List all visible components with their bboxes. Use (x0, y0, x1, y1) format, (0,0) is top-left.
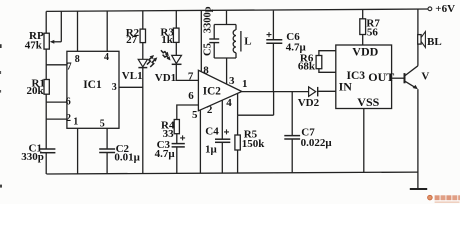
svg-text:7: 7 (188, 70, 194, 82)
inductor L (233, 25, 251, 59)
svg-text:27: 27 (126, 34, 138, 46)
pin 5 label IC1 (100, 119, 105, 130)
svg-text:5: 5 (100, 119, 105, 130)
svg-text:IN: IN (339, 80, 353, 94)
wire RP to R1 (45, 49, 47, 79)
svg-text:8: 8 (75, 54, 80, 65)
svg-text:C4: C4 (205, 125, 219, 137)
pin 3 label IC1 (112, 82, 117, 93)
wire IC3 VSS to ground (363, 109, 365, 173)
svg-text:BL: BL (427, 36, 442, 48)
wire C3 to ground (176, 147, 178, 174)
svg-text:IC1: IC1 (83, 79, 102, 91)
pin 8 label IC1 (75, 54, 80, 65)
resistor R1 (27, 78, 50, 97)
transistor V (405, 66, 430, 89)
wire IC2 pin 2 to C4 (221, 100, 223, 139)
wire IC1 pin 4 to rail (106, 11, 108, 51)
pin 3 label IC2 (229, 75, 235, 87)
+6V terminal (428, 3, 455, 15)
potentiometer RP (25, 11, 62, 51)
wire C4 to ground (221, 142, 223, 173)
svg-text:47k: 47k (25, 39, 43, 51)
svg-text:330p: 330p (21, 151, 44, 163)
svg-text:6: 6 (66, 96, 71, 107)
pin 2 label IC1 (66, 113, 71, 124)
svg-text:2: 2 (207, 104, 213, 116)
wire feedback vertical to output (273, 92, 275, 116)
svg-text:VDD: VDD (352, 44, 378, 58)
wire top supply rail (46, 9, 428, 11)
svg-text:OUT: OUT (368, 70, 394, 84)
wire IC2 pin 6 (177, 105, 199, 120)
svg-text:L: L (244, 35, 251, 47)
svg-text:VL1: VL1 (122, 70, 143, 82)
svg-text:5: 5 (192, 109, 198, 121)
pin 6 label IC2 (188, 90, 194, 102)
wire emitter to ground (417, 89, 419, 189)
capacitor C6 (266, 11, 306, 54)
wire collector to speaker (417, 44, 419, 66)
wire IC1 pin 5 to C2 (106, 128, 108, 149)
svg-text:0.022μ: 0.022μ (301, 137, 333, 149)
svg-text:68k: 68k (298, 60, 316, 72)
svg-text:4: 4 (104, 52, 109, 63)
resistor R4 (161, 120, 179, 141)
wire rail to LC tank (226, 11, 228, 25)
pin 4 label IC1 (104, 52, 109, 63)
wire rail to R3 (175, 11, 177, 28)
wire IC1 pin 8 to rail (77, 11, 79, 51)
wire IC2 pin 8 to rail (200, 11, 202, 72)
ground (410, 188, 427, 190)
resistor R5 (235, 115, 265, 150)
svg-text:1: 1 (73, 117, 78, 128)
wire IC1 pin 7 (46, 64, 67, 66)
op-amp IC2 (198, 70, 241, 111)
capacitor C2 (99, 143, 140, 164)
wire VD2 to IC3 IN (318, 90, 336, 92)
svg-text:IC2: IC2 (203, 86, 221, 98)
wire R1 to C1 (45, 94, 47, 149)
svg-text:VD1: VD1 (155, 72, 176, 84)
wire IC1 pin 1 to ground (77, 128, 79, 174)
speaker BL (418, 32, 442, 48)
op-amp IC1 (67, 51, 119, 128)
pin 5 label IC2 (192, 109, 198, 121)
svg-text:0.01μ: 0.01μ (114, 151, 140, 163)
wire IC3 OUT to transistor base (392, 77, 405, 79)
svg-text:V: V (421, 70, 429, 82)
wire R5 to ground (237, 150, 239, 173)
pin 8 label IC2 (203, 64, 209, 76)
wire IC2 pin 4 to feedback node (237, 93, 239, 115)
resistor R2 (126, 27, 146, 46)
svg-text:+6V: +6V (435, 3, 455, 15)
wire IC2 pin 5 stub to ground (199, 110, 201, 174)
capacitor C7 (284, 92, 332, 149)
pin 1 label IC1 (73, 117, 78, 128)
svg-text:1μ: 1μ (205, 144, 218, 156)
svg-text:3300p: 3300p (202, 6, 213, 33)
wire IC2 output (242, 91, 309, 93)
pin 4 label IC2 (226, 97, 232, 109)
pin 7 label IC1 (67, 62, 72, 73)
IC3 box (336, 44, 395, 109)
watermark (428, 195, 460, 203)
wire IC1 pin 6 (46, 101, 67, 103)
diode VD2 (298, 87, 320, 109)
wire rail to speaker (417, 9, 419, 34)
resistor R7 (360, 9, 381, 45)
wire VD1 to IC2 pin 7 (176, 64, 198, 80)
svg-text:20k: 20k (27, 85, 45, 97)
svg-text:VD2: VD2 (298, 97, 320, 109)
wire left column top (rail to RP) (45, 11, 47, 33)
svg-text:150k: 150k (242, 138, 266, 150)
pin 7 label IC2 (188, 70, 194, 82)
wire C6 to output node (272, 43, 274, 91)
wire feedback horizontal (238, 114, 274, 116)
svg-text:1k: 1k (161, 34, 174, 46)
photodiode VD1 (155, 50, 182, 84)
wire C1 to ground rail (45, 153, 47, 174)
wire VL1 to ground (142, 68, 144, 174)
resistor R6 (298, 51, 336, 73)
capacitor C4 (205, 125, 230, 155)
pin 6 label IC1 (66, 96, 71, 107)
LC tank bottom wire (214, 57, 236, 59)
svg-text:2: 2 (66, 113, 71, 124)
wire R3 to VD1 (175, 42, 177, 55)
wire R4 to C3 (176, 134, 178, 144)
svg-text:3: 3 (112, 82, 117, 93)
pin 2 label IC2 (207, 104, 213, 116)
wire tank to IC2 pin 3 (226, 58, 228, 84)
LC tank top wire (214, 24, 236, 26)
wire IC1 pin 2 (46, 118, 67, 120)
svg-text:C5: C5 (202, 43, 213, 56)
svg-text:56: 56 (367, 26, 379, 38)
pin 1 label IC2 (242, 78, 248, 90)
wire R2 to VL1 (142, 43, 144, 60)
svg-text:VSS: VSS (357, 95, 379, 109)
capacitor C1 (21, 142, 55, 163)
svg-text:7: 7 (67, 62, 72, 73)
capacitor C5 (202, 6, 219, 58)
svg-text:1: 1 (242, 78, 248, 90)
wire bottom ground rail (46, 172, 418, 174)
LED VL1 (122, 55, 158, 82)
wire IC1 pin 3 (119, 86, 143, 88)
svg-text:4.7μ: 4.7μ (155, 148, 176, 160)
svg-text:4: 4 (226, 97, 232, 109)
capacitor C3 (155, 135, 186, 160)
wire rail to R2 (142, 11, 144, 29)
resistor R3 (160, 26, 179, 46)
wire C2 to ground (106, 153, 108, 175)
svg-text:6: 6 (188, 90, 194, 102)
scan edge marks (0, 44, 2, 187)
wire C7 to ground (291, 139, 293, 173)
